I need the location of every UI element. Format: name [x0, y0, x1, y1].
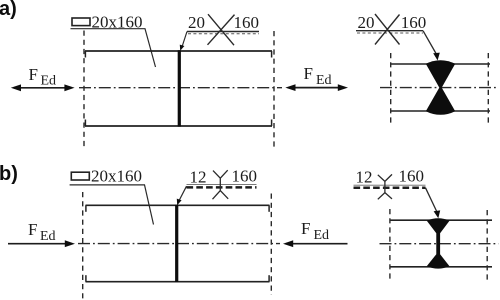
svg-text:a): a): [0, 0, 17, 20]
svg-text:160: 160: [234, 13, 260, 32]
svg-text:Ed: Ed: [314, 228, 330, 243]
svg-text:20: 20: [358, 13, 375, 32]
svg-text:F: F: [28, 220, 37, 239]
svg-text:12: 12: [356, 167, 373, 186]
svg-text:Ed: Ed: [316, 73, 332, 88]
svg-text:12: 12: [190, 167, 207, 186]
svg-text:F: F: [29, 65, 38, 84]
svg-text:F: F: [304, 64, 313, 83]
svg-text:Ed: Ed: [41, 74, 57, 89]
svg-text:b): b): [0, 163, 18, 185]
svg-text:160: 160: [232, 167, 258, 186]
svg-text:20x160: 20x160: [91, 167, 142, 186]
svg-text:160: 160: [401, 13, 427, 32]
svg-text:Ed: Ed: [40, 229, 56, 244]
svg-text:160: 160: [399, 167, 425, 186]
svg-text:F: F: [301, 219, 310, 238]
svg-text:20: 20: [188, 13, 205, 32]
